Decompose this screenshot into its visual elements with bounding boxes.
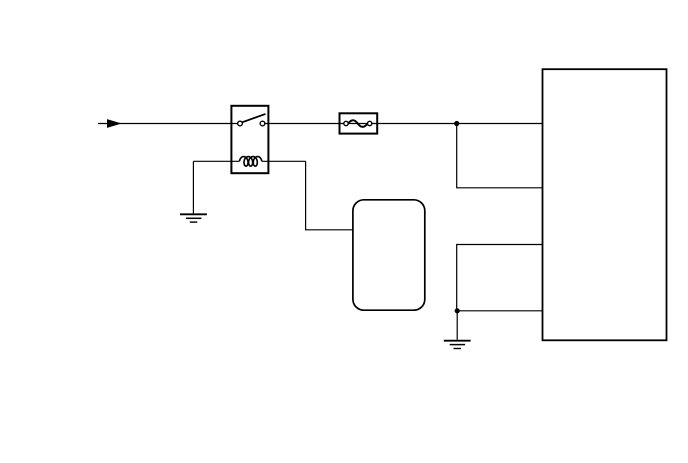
- wire branch 4: [457, 310, 542, 312]
- switch contact left: [238, 121, 243, 126]
- node junction top: [454, 121, 459, 126]
- load (rounded box): [353, 200, 425, 310]
- wire coil left to ground: [193, 160, 239, 162]
- ground left: [180, 161, 207, 222]
- switch blade: [242, 114, 265, 122]
- wire branch 3: [457, 245, 543, 311]
- switch contact right: [260, 121, 265, 126]
- relay K1: [231, 106, 268, 173]
- wire branch 2: [457, 124, 543, 188]
- arrow input: [107, 119, 122, 128]
- module U1 (large box): [543, 69, 667, 340]
- node junction bottom: [455, 308, 460, 313]
- coil winding: [239, 157, 261, 167]
- fuse F1: [340, 113, 378, 133]
- ground right: [444, 311, 471, 349]
- wire relay to module via fuse: [265, 123, 543, 125]
- wire main input line: [98, 123, 238, 125]
- wire relay coil to load: [306, 161, 353, 230]
- wire coil right: [262, 160, 306, 162]
